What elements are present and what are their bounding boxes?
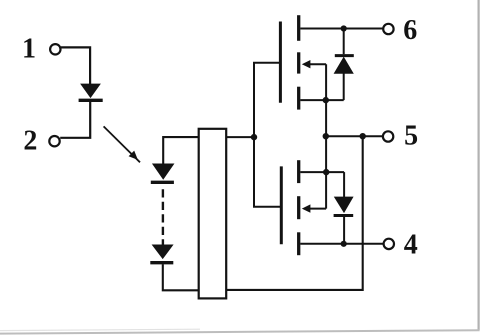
wire PD2 to control block bottom bbox=[163, 264, 199, 290]
LED D1 input bbox=[79, 84, 103, 100]
svg-text:6: 6 bbox=[403, 15, 417, 46]
transistor Q2 body arrow bbox=[302, 204, 326, 212]
node pin5 left junction bbox=[323, 133, 329, 139]
terminal pin 1 bbox=[50, 44, 60, 54]
gate bus wire bbox=[253, 63, 255, 207]
control circuit block U1 bbox=[199, 129, 227, 299]
node Q1 drain / diode junction bbox=[341, 25, 347, 31]
light coupling arrow bbox=[104, 126, 140, 162]
wire gate bus to Q1 gate bbox=[253, 62, 280, 64]
wire LED cathode to pin2 bbox=[60, 102, 90, 138]
wire Q2 drain to pin 4 bbox=[300, 243, 383, 245]
pin label 6 bbox=[403, 15, 417, 46]
photodiode PD1 bbox=[151, 164, 174, 182]
pin label 5 bbox=[404, 120, 418, 151]
node pin5 right junction bbox=[360, 133, 366, 139]
transistor Q1 channel segments bbox=[297, 15, 300, 109]
wire Q2 source bbox=[300, 171, 344, 173]
transistor Q1 gate bar bbox=[279, 22, 282, 103]
svg-text:1: 1 bbox=[22, 33, 36, 64]
wire control block to gate node bbox=[227, 136, 254, 138]
frame bottom border bbox=[0, 329, 480, 333]
terminal pin 4 bbox=[384, 239, 394, 249]
svg-text:4: 4 bbox=[404, 229, 418, 260]
terminal pin 6 bbox=[383, 24, 393, 34]
pin label 2 bbox=[23, 126, 37, 157]
wire Q1 source bbox=[300, 99, 343, 101]
node Q2 source junction bbox=[323, 169, 329, 175]
body diode D2 of Q1 bbox=[334, 29, 354, 101]
terminal pin 2 bbox=[49, 136, 59, 146]
svg-text:5: 5 bbox=[404, 120, 418, 151]
wire Q1 drain to pin 6 bbox=[300, 28, 383, 30]
node Q2 drain / diode junction bbox=[341, 241, 347, 247]
wire pin1 to LED anode bbox=[61, 47, 90, 84]
transistor Q2 channel segments bbox=[297, 160, 300, 255]
body diode D3 of Q2 bbox=[334, 172, 354, 244]
source body bus wire bbox=[325, 64, 327, 208]
transistor Q1 body arrow bbox=[302, 60, 326, 68]
pin label 1 bbox=[22, 33, 36, 64]
frame right border bbox=[478, 0, 480, 330]
wire gate bus to Q2 gate bbox=[253, 206, 281, 208]
node Q1 source junction bbox=[323, 97, 329, 103]
pin label 4 bbox=[404, 229, 418, 260]
wire photodiode stack top to control block bbox=[163, 137, 198, 164]
svg-text:2: 2 bbox=[23, 126, 37, 157]
photodiode PD2 bbox=[150, 245, 173, 263]
wire pin5 node to control block return bbox=[227, 136, 363, 290]
node gate junction bbox=[251, 134, 257, 140]
dashed wire PD1 to PD2 bbox=[162, 189, 164, 244]
terminal pin 5 bbox=[383, 131, 393, 141]
wire to pin 5 bbox=[326, 135, 383, 137]
transistor Q2 gate bar bbox=[280, 166, 283, 244]
